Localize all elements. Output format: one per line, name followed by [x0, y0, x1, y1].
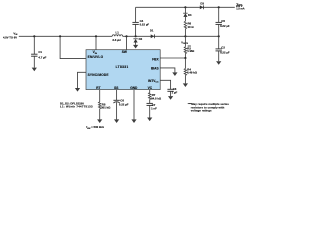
- wire INTVCC: [160, 80, 170, 89]
- svg-text:VIN: VIN: [13, 31, 17, 36]
- wire: [123, 35, 219, 37]
- ground: [147, 118, 152, 122]
- diode D4: [183, 7, 192, 21]
- capacitor C7: [147, 103, 158, 117]
- capacitor C6: [113, 90, 128, 120]
- wire SYNC/MODE: [78, 72, 87, 88]
- node junction A7: [218, 35, 220, 37]
- node junction A4: [125, 35, 127, 37]
- capacitor C3: [167, 87, 177, 96]
- svg-text:GND: GND: [130, 86, 138, 90]
- svg-text:84.5 kΩ: 84.5 kΩ: [151, 96, 162, 100]
- svg-text:LT8331: LT8331: [116, 65, 129, 69]
- svg-text:C5: C5: [221, 19, 225, 23]
- node VOUT2: [181, 41, 191, 49]
- wire: [19, 35, 112, 37]
- svg-text:L1: Würth 744775133: L1: Würth 744775133: [60, 104, 93, 108]
- svg-text:4.5V TO 6V: 4.5V TO 6V: [3, 35, 17, 39]
- resistor R4: [184, 58, 198, 83]
- wire GND pin: [133, 90, 135, 120]
- ground: [75, 88, 80, 92]
- wire VIN pin: [95, 36, 97, 49]
- svg-text:SS: SS: [114, 86, 118, 90]
- svg-text:L1: L1: [116, 31, 120, 35]
- wire top rail: [136, 6, 235, 8]
- svg-text:SYNC/MODE: SYNC/MODE: [88, 73, 109, 77]
- resistor R2: [184, 36, 195, 58]
- wire SW pin: [126, 36, 128, 49]
- resistor R7: [149, 90, 162, 104]
- svg-text:3.3 µH: 3.3 µH: [112, 38, 120, 42]
- node VIN: [3, 31, 18, 39]
- svg-text:0.22 µF: 0.22 µF: [220, 24, 230, 28]
- wire FBX: [160, 57, 185, 59]
- svg-text:VC: VC: [148, 86, 153, 90]
- svg-text:SW: SW: [122, 50, 127, 54]
- svg-text:FBX: FBX: [152, 58, 159, 62]
- capacitor C1: [31, 36, 47, 67]
- resistor R6: [184, 21, 194, 36]
- diode D3: [200, 1, 205, 9]
- svg-text:D4: D4: [188, 13, 192, 17]
- ground: [114, 119, 119, 123]
- diode D1: [150, 29, 155, 39]
- resistor R5: [99, 90, 112, 120]
- note footnote: [188, 102, 229, 112]
- svg-text:C1: C1: [38, 50, 42, 54]
- ground: [133, 45, 138, 49]
- svg-text:BIAS: BIAS: [151, 66, 159, 70]
- ground: [172, 72, 177, 76]
- node VOUT: [236, 2, 245, 11]
- ground: [32, 68, 37, 72]
- ground: [97, 119, 102, 123]
- node junction B1: [184, 6, 186, 8]
- svg-text:D2: D2: [139, 37, 143, 41]
- node junction B2: [218, 6, 220, 8]
- node junction A2: [59, 35, 61, 37]
- svg-text:1.5 mA: 1.5 mA: [236, 8, 244, 11]
- wire EN/UVLO: [60, 36, 86, 58]
- svg-text:1 MΩ: 1 MΩ: [187, 49, 195, 53]
- ground: [168, 96, 173, 100]
- node junction A5: [135, 35, 137, 37]
- capacitor C5: [216, 7, 230, 36]
- svg-text:0.22 µF: 0.22 µF: [140, 22, 150, 26]
- svg-text:0.22 µF: 0.22 µF: [220, 50, 230, 54]
- svg-text:301 kΩ: 301 kΩ: [101, 106, 111, 110]
- svg-text:D3: D3: [200, 1, 204, 5]
- wire BIAS: [160, 68, 175, 73]
- node FBX junction: [184, 57, 186, 59]
- node junction A6: [184, 35, 186, 37]
- capacitor C2: [216, 36, 230, 61]
- node junction A1: [33, 35, 35, 37]
- svg-text:RT: RT: [96, 86, 100, 90]
- svg-text:EN/UVLO: EN/UVLO: [88, 55, 104, 59]
- svg-text:6.49 kΩ: 6.49 kΩ: [187, 70, 198, 74]
- ground: [183, 83, 188, 87]
- svg-text:10 Ω: 10 Ω: [188, 25, 195, 29]
- diode D2: [133, 37, 142, 45]
- capacitor C4: [132, 7, 149, 36]
- svg-text:voltage ratings: voltage ratings: [191, 108, 212, 112]
- svg-text:0.22 µF: 0.22 µF: [119, 102, 129, 106]
- svg-text:1 µF: 1 µF: [172, 91, 178, 95]
- svg-text:D1: D1: [150, 29, 154, 33]
- IC U1 LT8331: [86, 50, 160, 90]
- svg-text:fSW = 500 kHz: fSW = 500 kHz: [86, 125, 104, 129]
- svg-text:1 nF: 1 nF: [151, 107, 157, 111]
- svg-text:4.7 µF: 4.7 µF: [38, 56, 46, 60]
- ground: [216, 61, 221, 65]
- inductor L1: [112, 31, 122, 42]
- svg-text:C2: C2: [221, 46, 225, 50]
- node junction A3: [95, 35, 97, 37]
- note BOM: [60, 101, 93, 108]
- ground: [131, 119, 136, 123]
